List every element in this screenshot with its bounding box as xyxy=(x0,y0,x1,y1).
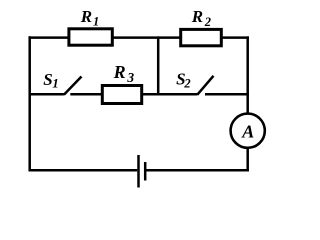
svg-text:S: S xyxy=(43,70,52,89)
svg-text:1: 1 xyxy=(93,15,99,29)
svg-text:R: R xyxy=(113,62,126,82)
svg-text:2: 2 xyxy=(204,15,211,29)
svg-text:2: 2 xyxy=(183,76,190,90)
svg-text:3: 3 xyxy=(126,70,134,85)
svg-text:R: R xyxy=(191,7,203,26)
svg-text:A: A xyxy=(241,122,254,142)
svg-text:R: R xyxy=(80,7,92,26)
svg-text:1: 1 xyxy=(52,76,59,91)
